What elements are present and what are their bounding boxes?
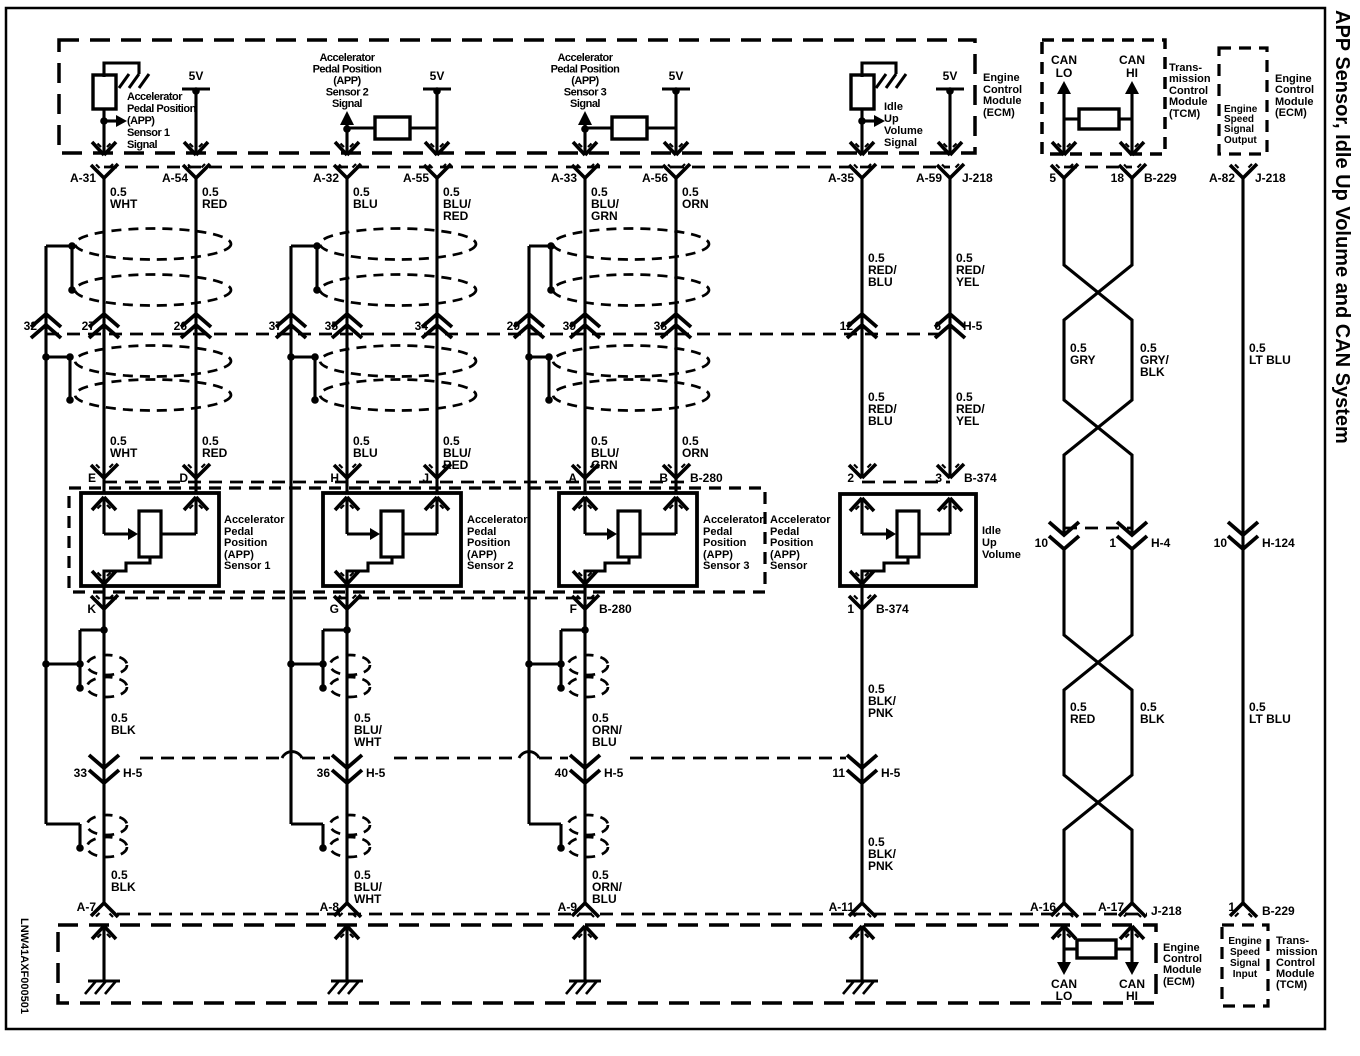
svg-text:(TCM): (TCM)	[1169, 108, 1200, 120]
svg-text:Signal: Signal	[570, 98, 600, 110]
connector G row4	[330, 595, 361, 616]
shield drain link lower x=347	[291, 824, 327, 852]
wire pot bottom APP sensor 2	[347, 557, 392, 584]
pin arrow up A-17	[1120, 926, 1144, 939]
ECM label right of speed output box	[1275, 73, 1314, 119]
svg-text:B-374: B-374	[876, 602, 909, 616]
label 0.5 RED	[1070, 700, 1096, 726]
connector 1 row6	[1228, 900, 1295, 918]
svg-text:34: 34	[415, 319, 429, 333]
connector A-8 row6	[320, 900, 361, 917]
signal arrow APP sensor1	[104, 115, 127, 127]
svg-text:BLU: BLU	[592, 892, 617, 906]
svg-text:B-280: B-280	[599, 602, 632, 616]
svg-text:36: 36	[317, 766, 331, 780]
vertical title APP Sensor, Idle Up Volume and CAN System	[1331, 10, 1353, 444]
wire engine speed signal	[1241, 178, 1244, 903]
svg-text:A: A	[568, 471, 577, 485]
shield drain link upper x=585	[525, 660, 561, 668]
arrow pin down APP sensor 1	[92, 571, 116, 584]
svg-text:A-31: A-31	[70, 171, 96, 185]
wire ground column x=585	[583, 609, 586, 903]
wire idle gnd stem	[860, 586, 863, 903]
shield lower ellipse B cx=153	[75, 380, 231, 411]
connector 40 H-5	[555, 755, 624, 783]
svg-text:B-280: B-280	[690, 471, 723, 485]
svg-text:26: 26	[174, 319, 188, 333]
label 0.5 BLU/GRN upper	[591, 185, 620, 223]
svg-text:Control: Control	[1275, 84, 1314, 96]
svg-text:39: 39	[563, 319, 577, 333]
wire right stem APP sensor 1	[194, 497, 197, 534]
label 0.5 RED lower	[202, 434, 228, 460]
svg-text:WHT: WHT	[354, 892, 382, 906]
5V supply idle	[936, 69, 964, 155]
svg-text:D: D	[179, 471, 188, 485]
svg-text:LNW41AXF000501: LNW41AXF000501	[18, 918, 30, 1014]
5V supply sensor2	[423, 69, 451, 155]
svg-text:Volume: Volume	[884, 125, 923, 137]
hop over drain wire x=529	[519, 752, 539, 758]
wiper arrow APP sensor 1	[104, 528, 138, 540]
connector F row4	[570, 595, 632, 616]
svg-text:Engine: Engine	[1228, 936, 1262, 947]
wire idle signal stem	[860, 109, 863, 155]
wire CAN LO bottom twisted	[1064, 549, 1132, 903]
resistor APP sensor 1 pull-up	[93, 75, 116, 109]
pin arrow up bottom x=347	[335, 926, 359, 939]
ground chassis symbol x=862	[843, 981, 878, 994]
svg-text:A-32: A-32	[313, 171, 339, 185]
svg-text:10: 10	[1035, 536, 1049, 550]
connector A-54 row1	[162, 164, 210, 185]
arrow pin up left APP sensor 2	[335, 497, 359, 510]
svg-text:32: 32	[24, 319, 38, 333]
pin A-55 module edge arrow	[425, 142, 449, 155]
label APP sensor 1	[224, 514, 285, 572]
label APP sensor3 signal	[551, 52, 621, 110]
svg-text:Position: Position	[467, 537, 511, 549]
svg-text:J: J	[422, 471, 429, 485]
connector A-59 row1	[916, 164, 993, 185]
svg-text:RED: RED	[1070, 712, 1096, 726]
svg-text:Module: Module	[1169, 96, 1208, 108]
svg-text:BLU: BLU	[868, 275, 893, 289]
connector K row4	[87, 595, 118, 616]
wire idle right link	[919, 532, 950, 535]
wire CAN HI top twisted	[1064, 178, 1132, 535]
svg-text:H: H	[330, 471, 339, 485]
connector A-31 row1	[70, 164, 118, 185]
svg-text:A-54: A-54	[162, 171, 188, 185]
signal arrow idle up volume	[862, 115, 885, 127]
TCM engine speed signal input box	[1222, 925, 1268, 1006]
pin 5 tcm edge arrow	[1052, 142, 1076, 155]
pin arrow up bottom x=862	[850, 926, 874, 939]
wire K stem	[102, 586, 105, 630]
connector E row3	[88, 464, 118, 485]
svg-text:Pedal Position: Pedal Position	[127, 103, 197, 115]
connector 27 row2	[82, 314, 119, 338]
shield drain link lower x=104	[46, 824, 84, 852]
svg-text:Idle: Idle	[884, 101, 903, 113]
svg-text:Sensor: Sensor	[770, 560, 808, 572]
svg-text:A-8: A-8	[320, 900, 340, 914]
5V supply sensor3	[662, 69, 690, 155]
svg-text:1: 1	[1228, 900, 1235, 914]
wire resistor to ground	[104, 63, 139, 77]
connector 12 row2	[840, 314, 877, 338]
drawing number LNW41AXF000501	[18, 918, 30, 1014]
label APP sensor 2	[467, 514, 528, 572]
connector 26 row2	[174, 314, 211, 338]
svg-text:LO: LO	[1056, 66, 1073, 80]
connector 37 row2	[269, 314, 306, 338]
svg-text:Accelerator: Accelerator	[319, 52, 375, 64]
svg-text:H-5: H-5	[366, 766, 386, 780]
connector 39 row2	[563, 314, 600, 338]
pin A-59 module edge arrow	[938, 142, 962, 155]
svg-text:PNK: PNK	[868, 859, 894, 873]
arrow CAN HI down	[1125, 962, 1139, 975]
wire F stem	[583, 586, 586, 630]
svg-text:5V: 5V	[943, 69, 958, 83]
node junction idle signal	[858, 117, 866, 125]
svg-text:H-5: H-5	[123, 766, 143, 780]
svg-text:BLK: BLK	[1140, 712, 1165, 726]
svg-text:Module: Module	[1163, 964, 1202, 976]
svg-text:Signal: Signal	[1230, 958, 1260, 969]
svg-text:CAN: CAN	[1119, 53, 1145, 67]
resistor CAN terminating ecm	[1077, 940, 1116, 958]
wire idle left stem	[860, 498, 863, 534]
label wire lower x=347	[354, 868, 383, 906]
shield lower ellipse A cx=398	[320, 346, 476, 377]
svg-text:(TCM): (TCM)	[1276, 979, 1307, 991]
svg-text:Signal: Signal	[1224, 124, 1254, 135]
sensor box APP sensor 1	[81, 493, 219, 586]
svg-text:Position: Position	[703, 537, 747, 549]
potentiometer element APP sensor 1	[139, 511, 161, 557]
arrow pin up right APP sensor 1	[184, 497, 208, 510]
ground chassis symbol idle	[876, 74, 906, 88]
label CAN HI ecm	[1119, 977, 1145, 1003]
label 0.5 WHT lower	[110, 434, 138, 460]
svg-text:(ECM): (ECM)	[983, 107, 1015, 119]
wire ground stem bottom x=585	[583, 926, 586, 981]
wire shield drain cx=153	[44, 246, 47, 824]
label 0.5 ORN lower	[682, 434, 709, 460]
wire CAN LO top twisted	[1064, 178, 1132, 535]
svg-text:H-124: H-124	[1262, 536, 1295, 550]
connector 35 row2	[325, 314, 362, 338]
svg-text:WHT: WHT	[110, 446, 138, 460]
hop over drain wire x=291	[282, 752, 302, 758]
label 0.5 BLU/GRN lower	[591, 434, 620, 472]
connector A-33 row1	[551, 164, 599, 185]
wire idle right stem	[948, 498, 951, 534]
connector line H-4	[1064, 527, 1132, 530]
svg-text:A-35: A-35	[828, 171, 854, 185]
wire left stem APP sensor 3	[583, 497, 586, 534]
svg-text:B-374: B-374	[964, 471, 997, 485]
arrow CAN LO up	[1057, 81, 1071, 94]
wire CAN HI bottom twisted	[1064, 549, 1132, 903]
svg-text:GRN: GRN	[591, 209, 618, 223]
ground chassis symbol x=347	[328, 981, 363, 994]
svg-text:E: E	[88, 471, 96, 485]
shield upper ellipse A cx=631	[553, 229, 709, 260]
svg-text:A-82: A-82	[1209, 171, 1235, 185]
arrow pin up left idle	[850, 498, 874, 511]
arrow pin up right APP sensor 2	[425, 497, 449, 510]
connector line row3 idle	[862, 481, 950, 484]
small shield lower ellipses x=347	[330, 815, 370, 857]
label wire lower x=104	[111, 868, 136, 894]
connector 36 H-5	[317, 755, 386, 783]
svg-text:Accelerator: Accelerator	[770, 514, 831, 526]
svg-text:Sensor 3: Sensor 3	[703, 560, 749, 572]
TCM bottom label	[1276, 935, 1318, 991]
resistor CAN terminating tcm	[1079, 109, 1119, 129]
ECM top module box	[59, 40, 975, 153]
svg-text:F: F	[570, 602, 577, 616]
connector line row4	[104, 597, 595, 600]
wire ground stem bottom x=347	[345, 926, 348, 981]
svg-text:LO: LO	[1056, 989, 1073, 1003]
svg-text:Module: Module	[983, 95, 1022, 107]
arrow CAN LO down	[1057, 962, 1071, 975]
connector A-11 row6	[829, 900, 876, 917]
label 0.5 RED/YEL lower	[956, 390, 985, 428]
ECM bottom label	[1163, 942, 1202, 988]
svg-text:BLU: BLU	[353, 446, 378, 460]
svg-text:G: G	[330, 602, 339, 616]
wiper arrow APP sensor 3	[585, 528, 617, 540]
connector 34 row2	[415, 314, 452, 338]
svg-text:H-5: H-5	[881, 766, 901, 780]
wire sensor signal x=104	[102, 178, 105, 493]
svg-text:Volume: Volume	[982, 549, 1021, 561]
small shield upper tap x=585	[557, 626, 589, 692]
shield lower ellipse A cx=153	[75, 346, 231, 377]
connector 29 row2	[507, 314, 544, 338]
svg-text:Position: Position	[224, 537, 268, 549]
wire idle resistor to ground	[862, 63, 896, 77]
svg-text:(APP): (APP)	[127, 115, 155, 127]
svg-text:K: K	[87, 602, 96, 616]
pin A-33 module edge arrow	[573, 142, 597, 155]
label 0.5 GRY	[1070, 341, 1096, 367]
svg-text:A-7: A-7	[77, 900, 97, 914]
wire pot bottom APP sensor 1	[104, 557, 150, 584]
shield lower ellipse B cx=631	[553, 380, 709, 411]
svg-text:H-5: H-5	[604, 766, 624, 780]
wire ground stem bottom x=104	[102, 926, 105, 981]
svg-text:1: 1	[1109, 536, 1116, 550]
engine speed signal output label	[1224, 104, 1258, 146]
svg-text:A-56: A-56	[642, 171, 668, 185]
svg-text:B-229: B-229	[1144, 171, 1177, 185]
svg-text:11: 11	[832, 766, 845, 780]
wire ecm resistor links	[1064, 947, 1132, 950]
shield drain top tap cx=398	[291, 242, 321, 294]
wire sensor signal x=196	[194, 178, 197, 493]
shield upper ellipse B cx=631	[553, 275, 709, 306]
signal arrow up sensor2	[340, 111, 354, 129]
small shield upper tap x=347	[319, 626, 351, 692]
wire idle pot bottom	[862, 557, 908, 584]
svg-text:HI: HI	[1126, 66, 1138, 80]
connector 10 H-4	[1035, 522, 1079, 550]
connector 3 row3	[935, 464, 997, 485]
shield drain top tap cx=153	[46, 242, 76, 294]
connector 1 H-4	[1109, 522, 1170, 550]
shield upper ellipse A cx=398	[320, 229, 476, 260]
connector line row1 TCM	[1064, 166, 1132, 169]
TCM top label	[1169, 62, 1211, 120]
signal arrow up sensor3	[578, 111, 592, 129]
small shield upper ellipses x=347	[330, 655, 370, 697]
wiper arrow APP sensor 2	[347, 528, 380, 540]
wire right link APP sensor 1	[161, 532, 196, 535]
arrow pin down APP sensor 3	[573, 571, 597, 584]
svg-text:A-17: A-17	[1098, 900, 1124, 914]
connector line row3	[104, 481, 690, 484]
wire pot bottom APP sensor 3	[585, 557, 629, 584]
connector 1 row4	[847, 595, 909, 616]
node junction APP sensor1 signal	[100, 117, 108, 125]
svg-text:ORN: ORN	[682, 197, 709, 211]
svg-text:Signal: Signal	[127, 139, 157, 151]
svg-text:BLU: BLU	[353, 197, 378, 211]
label APP sensor2 signal	[313, 52, 383, 110]
sensor box APP sensor 3	[559, 493, 697, 586]
label wire upper x=104	[111, 711, 136, 737]
resistor idle up volume pull-up	[851, 75, 874, 109]
connector line row5 seg2	[302, 757, 330, 760]
idle up volume box	[840, 494, 976, 586]
wire G stem	[345, 586, 348, 630]
potentiometer element APP sensor 3	[618, 511, 640, 557]
svg-text:A-59: A-59	[916, 171, 942, 185]
svg-text:BLU: BLU	[592, 735, 617, 749]
connector A-16 row6	[1030, 900, 1078, 917]
wire ground column x=104	[102, 609, 105, 903]
connector 38 row2	[654, 314, 691, 338]
wire sensor signal x=585	[583, 178, 586, 493]
svg-text:37: 37	[269, 319, 283, 333]
arrow CAN HI up	[1125, 81, 1139, 94]
small shield upper ellipses x=104	[87, 655, 127, 697]
label 0.5 RED upper	[202, 185, 228, 211]
shield drain link upper x=347	[287, 660, 323, 668]
svg-text:WHT: WHT	[110, 197, 138, 211]
connector A-9 row6	[558, 900, 599, 917]
TCM top module box	[1042, 40, 1165, 154]
arrow pin up left APP sensor 3	[573, 497, 597, 510]
label APP sensor 3	[703, 514, 764, 572]
svg-text:H-5: H-5	[963, 319, 983, 333]
svg-text:Signal: Signal	[884, 137, 917, 149]
svg-text:Position: Position	[770, 537, 814, 549]
connector J row3	[422, 464, 451, 485]
connector H row3	[330, 464, 361, 485]
svg-text:Accelerator: Accelerator	[127, 91, 183, 103]
ground chassis symbol sensor1	[119, 74, 149, 88]
svg-text:RED: RED	[202, 197, 228, 211]
svg-text:(APP): (APP)	[333, 75, 361, 87]
sensor box APP sensor 2	[323, 493, 461, 586]
connector line row2	[46, 333, 950, 336]
small shield upper tap x=104	[76, 626, 108, 692]
wire sensor1 signal stem	[102, 109, 105, 155]
wire left stem APP sensor 1	[102, 497, 105, 534]
svg-text:Up: Up	[982, 537, 997, 549]
connector 2 row3	[847, 464, 876, 485]
wire sensor2 resistor links	[347, 126, 437, 129]
svg-text:CAN: CAN	[1051, 53, 1077, 67]
engine speed signal input label	[1228, 936, 1262, 980]
pin A-32 module edge arrow	[335, 142, 359, 155]
svg-text:Signal: Signal	[332, 98, 362, 110]
svg-text:Speed: Speed	[1230, 947, 1260, 958]
label 0.5 BLU/RED upper	[443, 185, 472, 223]
connector line row5 seg1	[140, 757, 282, 760]
svg-text:BLK: BLK	[111, 880, 136, 894]
label CAN LO ecm	[1051, 977, 1077, 1003]
svg-text:40: 40	[555, 766, 569, 780]
5V supply sensor1	[182, 69, 210, 155]
svg-text:38: 38	[654, 319, 668, 333]
svg-text:J-218: J-218	[1255, 171, 1286, 185]
label idle up volume signal	[884, 101, 923, 149]
label 0.5 BLU/RED lower	[443, 434, 472, 472]
wire idle A-59 to 3	[948, 178, 951, 478]
arrow pin up left APP sensor 1	[92, 497, 116, 510]
small shield lower ellipses x=585	[568, 815, 608, 857]
resistor sensor2 pull-up	[375, 117, 410, 139]
connector 11 H-5	[832, 755, 900, 783]
svg-text:Pedal Position: Pedal Position	[551, 64, 621, 76]
svg-text:Engine: Engine	[983, 72, 1020, 84]
arrow pin up right idle	[938, 498, 962, 511]
potentiometer idle	[897, 511, 919, 557]
svg-text:Sensor 2: Sensor 2	[467, 560, 513, 572]
svg-text:J-218: J-218	[962, 171, 993, 185]
svg-text:B-229: B-229	[1262, 904, 1295, 918]
svg-text:LT BLU: LT BLU	[1249, 712, 1291, 726]
svg-text:H-4: H-4	[1151, 536, 1171, 550]
connector A-56 row1	[642, 164, 690, 185]
wire ground column x=347	[345, 609, 348, 903]
svg-text:33: 33	[74, 766, 88, 780]
wire tcm can lo stem	[1062, 93, 1065, 155]
svg-text:6: 6	[934, 319, 941, 333]
label idle up volume	[982, 525, 1021, 561]
ground chassis symbol x=104	[85, 981, 120, 994]
svg-text:J-218: J-218	[1151, 904, 1182, 918]
connector line row1 ECM	[104, 166, 950, 169]
wire shield drain cx=398	[289, 246, 292, 824]
svg-text:Up: Up	[884, 113, 899, 125]
svg-text:35: 35	[325, 319, 339, 333]
label CAN HI tcm	[1119, 53, 1145, 80]
svg-text:Output: Output	[1224, 135, 1257, 146]
svg-text:BLU: BLU	[868, 414, 893, 428]
svg-text:29: 29	[507, 319, 521, 333]
shield drain lower tap cx=398	[287, 353, 319, 404]
